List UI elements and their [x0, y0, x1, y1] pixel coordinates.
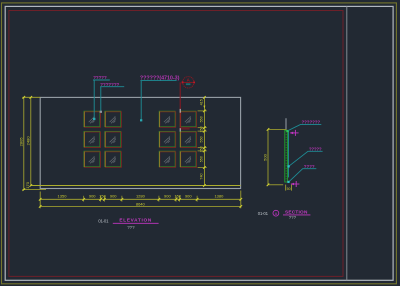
- bottom dim extension tick: [158, 196, 160, 202]
- right dim extension line: [198, 147, 207, 149]
- section 500 dim line: [267, 129, 269, 184]
- panel A22 olive left edge: [104, 132, 106, 148]
- section label mid dot: [288, 165, 290, 167]
- section panel green strip: [285, 130, 288, 182]
- panel B11 olive left edge: [158, 112, 160, 128]
- right dim tick mark: [203, 126, 206, 129]
- section wall stud gray line: [285, 118, 287, 129]
- label frame underline: [100, 86, 124, 88]
- svg-text:170: 170: [25, 181, 30, 188]
- overall dim tick mark: [39, 205, 42, 208]
- panel A22 inner green frame: [105, 131, 121, 147]
- section label top leader: [288, 125, 321, 131]
- bottom dim extension line right: [240, 191, 242, 209]
- panel A21 inner green frame: [84, 131, 100, 147]
- svg-text:SECTION: SECTION: [285, 210, 308, 215]
- section top node dot: [286, 130, 288, 132]
- panel A21 glyph: [89, 136, 95, 143]
- left outer dim line: [23, 97, 25, 189]
- panel B11 outer red frame: [160, 112, 176, 128]
- svg-text:1280: 1280: [136, 194, 146, 199]
- panel B12 outer red frame: [181, 112, 197, 128]
- panel B32 inner green frame: [180, 151, 196, 167]
- elevation title underline: [113, 222, 159, 224]
- bottom dim tick mark: [196, 198, 199, 201]
- svg-text:550: 550: [200, 156, 204, 162]
- left dim bottom extension: [22, 189, 46, 191]
- right dim extension line: [198, 150, 207, 152]
- section 500 dim top extension: [268, 128, 287, 130]
- panel B22 glyph: [185, 136, 191, 143]
- bottom dim extension tick: [175, 196, 177, 202]
- right dim tick mark: [203, 146, 206, 149]
- right dim tick mark: [203, 130, 206, 133]
- bottom dim tick mark: [158, 198, 161, 201]
- section cut white tick top: [179, 109, 181, 113]
- svg-text:900: 900: [185, 194, 192, 199]
- panel A11 glyph: [89, 116, 95, 123]
- svg-text:???????: ???????: [302, 120, 321, 125]
- panel B21 inner green frame: [159, 131, 175, 147]
- svg-text:50: 50: [287, 187, 291, 191]
- right dim extension line: [198, 110, 207, 112]
- right dim tick mark: [203, 96, 206, 99]
- panel A32 inner green frame: [105, 151, 121, 167]
- section panel hatch: [285, 132, 287, 182]
- svg-text:550: 550: [200, 116, 204, 122]
- left dim top extension: [22, 96, 40, 98]
- svg-text:01-01: 01-01: [98, 218, 109, 223]
- panel A32 glyph: [110, 156, 116, 163]
- bottom dim extension tick: [103, 196, 105, 202]
- section level arrow top: [290, 130, 299, 136]
- section label bottom dot: [287, 181, 289, 183]
- panel A12 outer red frame: [106, 112, 122, 128]
- panel B21 outer red frame: [160, 132, 176, 148]
- panel A21 outer red frame: [85, 132, 101, 148]
- svg-text:?????: ?????: [309, 146, 322, 151]
- detail callout divider: [182, 81, 194, 83]
- bottom dim extension line left: [39, 192, 41, 209]
- panel B12 glyph: [185, 116, 191, 123]
- panel B31 inner green frame: [159, 151, 175, 167]
- bottom dim tick mark: [82, 198, 85, 201]
- svg-text:900: 900: [164, 194, 171, 199]
- section 500 dim bottom extension: [268, 184, 283, 186]
- label hardware underline: [93, 79, 110, 81]
- svg-text:???: ???: [127, 225, 135, 230]
- panel A22 outer red frame: [106, 132, 122, 148]
- svg-text:???: ???: [289, 215, 297, 220]
- panel A32 outer red frame: [106, 152, 122, 168]
- svg-text:ELEVATION: ELEVATION: [119, 218, 152, 223]
- detail callout number bar: [186, 83, 191, 85]
- label paint leader line: [140, 81, 142, 120]
- bottom dim tick mark: [103, 198, 106, 201]
- bottom dim extension tick: [196, 196, 198, 202]
- section cut line: [180, 82, 189, 128]
- panel A31 inner green frame: [84, 151, 100, 167]
- svg-text:900: 900: [110, 194, 117, 199]
- svg-text:?????: ?????: [93, 75, 107, 80]
- left dim tick mark: [30, 184, 33, 187]
- panel B22 inner green frame: [180, 131, 196, 147]
- wall base line: [31, 185, 241, 187]
- svg-text:01-01: 01-01: [258, 211, 269, 216]
- panel A22 glyph: [110, 136, 116, 143]
- drawing red frame: [9, 11, 343, 277]
- bottom dim extension tick: [100, 196, 102, 202]
- right dim tick mark: [203, 184, 206, 187]
- svg-text:A: A: [275, 211, 278, 216]
- label paint underline: [140, 80, 176, 82]
- panel B11 glyph: [164, 116, 170, 123]
- panel B32 glyph: [185, 156, 191, 163]
- overall dim tick mark: [240, 205, 243, 208]
- bottom dim tick mark: [240, 198, 243, 201]
- detail callout end dots: [182, 82, 184, 84]
- right dim extension line: [198, 130, 207, 132]
- svg-text:2480: 2480: [25, 136, 30, 146]
- label paint leader dot: [140, 119, 142, 121]
- panel A31 olive left edge: [83, 152, 85, 168]
- panel B22 outer red frame: [181, 132, 197, 148]
- section level arrow bottom: [291, 181, 300, 187]
- svg-text:150: 150: [99, 194, 106, 199]
- title block divider line: [346, 6, 348, 280]
- bottom dim tick mark: [39, 198, 42, 201]
- right dim top arrow: [203, 106, 205, 109]
- bottom dim extension tick: [83, 196, 85, 202]
- right dim tick mark: [203, 150, 206, 153]
- panel B31 outer red frame: [160, 152, 176, 168]
- panel A31 glyph: [89, 156, 95, 163]
- bottom dimension chain line: [40, 198, 241, 200]
- bottom dim extension tick: [179, 196, 181, 202]
- svg-text:2805: 2805: [18, 137, 23, 147]
- bottom dim tick mark: [178, 198, 181, 201]
- section title underline: [283, 214, 310, 216]
- bottom dim extension tick: [121, 196, 123, 202]
- section 500 dim ticks: [267, 128, 270, 131]
- panel B12 inner green frame: [180, 111, 196, 127]
- bottom dim tick mark: [99, 198, 102, 201]
- section bottom 50 dim: [286, 185, 292, 192]
- panel A31 outer red frame: [85, 152, 101, 168]
- svg-text:550: 550: [200, 136, 204, 142]
- panel B31 olive left edge: [158, 152, 160, 168]
- detail callout circle A: [183, 77, 194, 88]
- label hardware leader line: [93, 80, 95, 118]
- svg-text:1350: 1350: [58, 194, 68, 199]
- panel B21 glyph: [164, 136, 170, 143]
- svg-text:150: 150: [174, 194, 181, 199]
- left dim tick mark: [30, 96, 33, 99]
- svg-text:8640: 8640: [136, 202, 146, 207]
- svg-text:150: 150: [200, 146, 204, 152]
- section title circle A: [273, 210, 279, 216]
- panel B11 inner green frame: [159, 111, 175, 127]
- panel A12 glyph: [110, 116, 116, 123]
- left inner dim line: [30, 97, 32, 185]
- bottom dim tick mark: [175, 198, 178, 201]
- panel B22 olive left edge: [179, 132, 181, 148]
- section cut white tick bottom: [179, 128, 181, 131]
- right dim tick mark: [203, 166, 206, 169]
- panel A12 olive left edge: [104, 112, 106, 128]
- panel A11 outer red frame: [85, 112, 101, 128]
- panel A21 olive left edge: [83, 132, 85, 148]
- svg-text:900: 900: [89, 194, 96, 199]
- panel A32 olive left edge: [104, 152, 106, 168]
- section label mid leader: [289, 151, 323, 166]
- label hardware leader dot: [93, 118, 95, 120]
- section glass cyan line: [288, 131, 290, 177]
- bottom overall dimension line: [40, 205, 241, 207]
- left dim tick mark: [23, 96, 26, 99]
- left dim tick mark: [23, 188, 26, 191]
- label frame leader line: [100, 87, 102, 112]
- label frame leader dot: [100, 111, 102, 113]
- panel A11 inner green frame: [84, 111, 100, 127]
- right dim extension line: [198, 167, 207, 169]
- right dim chain line: [203, 97, 205, 186]
- panel B12 olive left edge: [179, 112, 181, 128]
- svg-text:415: 415: [200, 99, 204, 105]
- bottom dim tick mark: [121, 198, 124, 201]
- panel A12 inner green frame: [105, 111, 121, 127]
- panel B32 olive left edge: [179, 152, 181, 168]
- section label bottom leader: [289, 169, 317, 182]
- panel B21 olive left edge: [158, 132, 160, 148]
- panel A11 olive left edge: [83, 112, 85, 128]
- panel B32 outer red frame: [181, 152, 197, 168]
- panel B31 glyph: [164, 156, 170, 163]
- right dim tick mark: [203, 110, 206, 113]
- svg-text:1380: 1380: [214, 194, 224, 199]
- svg-text:500: 500: [262, 153, 267, 160]
- svg-text:740: 740: [200, 173, 204, 179]
- svg-text:150: 150: [200, 126, 204, 132]
- right dim extension line: [198, 127, 207, 129]
- wall elevation outline: [40, 97, 240, 188]
